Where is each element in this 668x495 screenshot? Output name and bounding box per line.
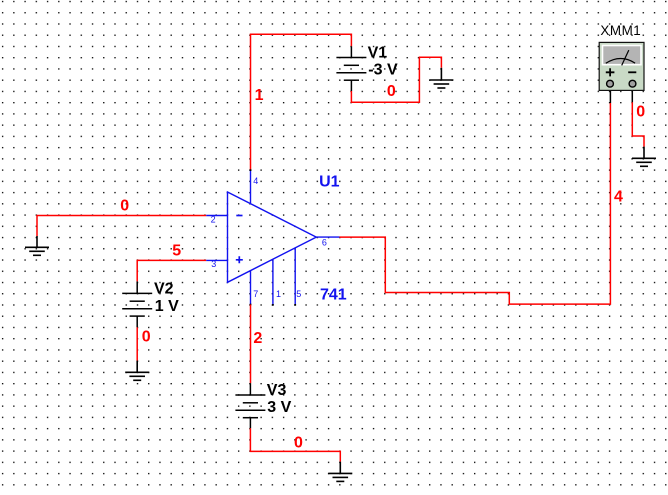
pin 7 junction tip	[250, 304, 252, 306]
svg-text:4: 4	[253, 176, 258, 186]
pin 5 end tip	[294, 304, 296, 306]
svg-text:XMM1: XMM1	[600, 23, 641, 38]
battery V2	[122, 281, 152, 327]
svg-text:0: 0	[387, 83, 396, 100]
svg-text:1 V: 1 V	[155, 298, 179, 315]
svg-text:1: 1	[276, 289, 281, 299]
ground near V1	[429, 68, 453, 88]
svg-text:0: 0	[120, 198, 129, 215]
svg-text:1: 1	[255, 87, 264, 104]
wire net0 left ground to pin2	[37, 216, 206, 237]
wire net0 multimeter minus to ground	[632, 102, 644, 146]
wire net5 V2 to pin3	[137, 260, 206, 281]
wire net0 V3 bottom to ground	[250, 428, 340, 462]
ground under XMM1	[632, 147, 656, 167]
multimeter lead plus	[609, 90, 611, 103]
svg-text:V1: V1	[368, 45, 388, 62]
svg-text:6: 6	[322, 238, 327, 248]
pin 1 stub	[272, 259, 274, 305]
op-amp U1 triangle	[228, 192, 317, 282]
pin 5 stub	[294, 248, 296, 305]
svg-text:V3: V3	[267, 382, 287, 399]
battery V3	[235, 383, 265, 428]
op-amp minus sign	[236, 215, 242, 217]
ground left	[25, 236, 49, 255]
svg-text:0: 0	[636, 103, 645, 120]
svg-text:4: 4	[614, 188, 623, 205]
battery V1	[336, 46, 366, 91]
ground under V2	[125, 361, 149, 381]
svg-text:0: 0	[294, 434, 303, 451]
ground under V3	[328, 462, 352, 482]
wire net0 V1 bottom to ground	[351, 57, 441, 102]
svg-text:V2: V2	[154, 280, 174, 297]
pin 1 end tip	[272, 304, 274, 306]
multimeter XMM1 body	[599, 42, 644, 90]
svg-text:7: 7	[253, 289, 258, 299]
svg-text:-3 V: -3 V	[368, 62, 398, 79]
svg-text:741: 741	[320, 287, 347, 304]
pin 2 stub	[206, 215, 227, 217]
pin 3 stub	[206, 259, 227, 261]
pin 4 stub	[250, 170, 252, 203]
wire net1 pin4 to V1 top	[251, 34, 352, 170]
pin 4 junction tip	[250, 169, 252, 171]
svg-text:U1: U1	[319, 174, 340, 191]
pin 6 stub	[316, 236, 339, 238]
svg-text:2: 2	[211, 214, 216, 224]
wire net0 V2 bottom to ground	[136, 327, 138, 360]
svg-text:2: 2	[253, 330, 262, 347]
svg-text:5: 5	[172, 243, 181, 260]
op-amp plus sign	[236, 256, 243, 263]
multimeter lead minus	[631, 90, 633, 102]
wire net2 pin7 to V3	[250, 305, 252, 384]
svg-text:3 V: 3 V	[267, 399, 291, 416]
svg-text:5: 5	[296, 289, 301, 299]
pin 7 stub	[250, 271, 252, 305]
svg-text:0: 0	[142, 328, 151, 345]
wire net4 output to multimeter	[340, 103, 611, 304]
svg-text:3: 3	[211, 259, 216, 269]
